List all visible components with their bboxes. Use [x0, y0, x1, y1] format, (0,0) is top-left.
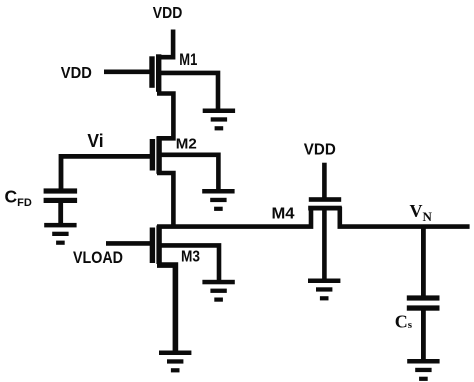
svg-text:CFD: CFD: [5, 186, 32, 209]
wire M3 drain to M4 (long node): [157, 207, 311, 227]
capacitor C_s: [407, 295, 440, 310]
svg-text:VDD: VDD: [61, 65, 92, 82]
wire VLOAD to M3 gate: [106, 241, 151, 246]
wire C_s bottom plate to ground: [421, 310, 426, 361]
ground below M1 bulk: [203, 109, 235, 131]
svg-text:M3: M3: [181, 248, 200, 265]
transistor M1: [149, 54, 161, 92]
svg-text:VDD: VDD: [304, 141, 336, 158]
ground below M4 bulk: [308, 279, 340, 301]
svg-text:M2: M2: [176, 135, 197, 152]
wire M3 bulk lead to ground: [161, 245, 219, 281]
ground below M2 bulk: [202, 189, 234, 211]
wire M1 bulk lead to ground: [161, 73, 218, 111]
wire node Vi to M2 gate and C_FD: [61, 156, 152, 189]
wire M3 source to bottom ground: [157, 265, 175, 352]
ground below C_s: [407, 359, 439, 381]
wire M4 bulk to ground: [322, 210, 327, 280]
wire VDD top to M1 drain: [157, 30, 173, 58]
wire M1 source to M2 drain: [157, 94, 173, 139]
svg-text:VDD: VDD: [153, 5, 183, 22]
capacitor C_FD: [44, 188, 78, 203]
svg-text:VN: VN: [410, 201, 433, 224]
wire M2 source to M3 drain: [157, 173, 173, 227]
transistor M3: [150, 226, 162, 265]
ground below M3 bulk: [202, 280, 234, 302]
svg-text:M4: M4: [272, 206, 295, 223]
wire M4 right lead to node VN: [340, 207, 470, 227]
wire node VN to C_s: [421, 227, 426, 297]
ground below M3 source: [159, 351, 191, 373]
svg-text:Cs: Cs: [395, 312, 413, 332]
svg-text:Vi: Vi: [87, 131, 103, 151]
wire VDD left to M1 gate: [104, 70, 151, 75]
wire M2 bulk lead to ground: [161, 155, 218, 191]
wire C_FD bottom plate to ground: [58, 202, 63, 225]
transistor M4: [308, 197, 342, 210]
ground below C_FD: [44, 223, 76, 245]
svg-text:M1: M1: [179, 51, 197, 69]
wire VDD to M4 gate: [322, 163, 327, 198]
svg-text:VLOAD: VLOAD: [73, 249, 123, 267]
transistor M2: [150, 136, 162, 174]
